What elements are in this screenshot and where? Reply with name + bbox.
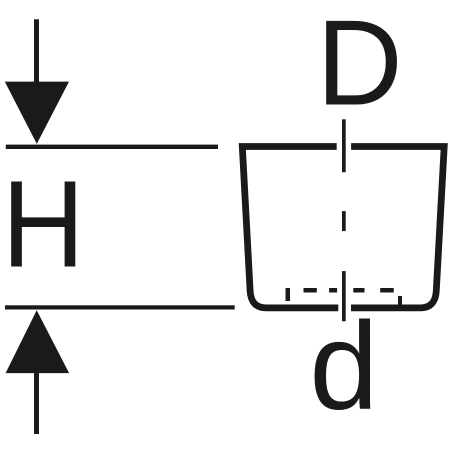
svg-text:D: D bbox=[316, 0, 402, 131]
svg-text:H: H bbox=[2, 156, 85, 294]
svg-text:d: d bbox=[309, 298, 378, 436]
